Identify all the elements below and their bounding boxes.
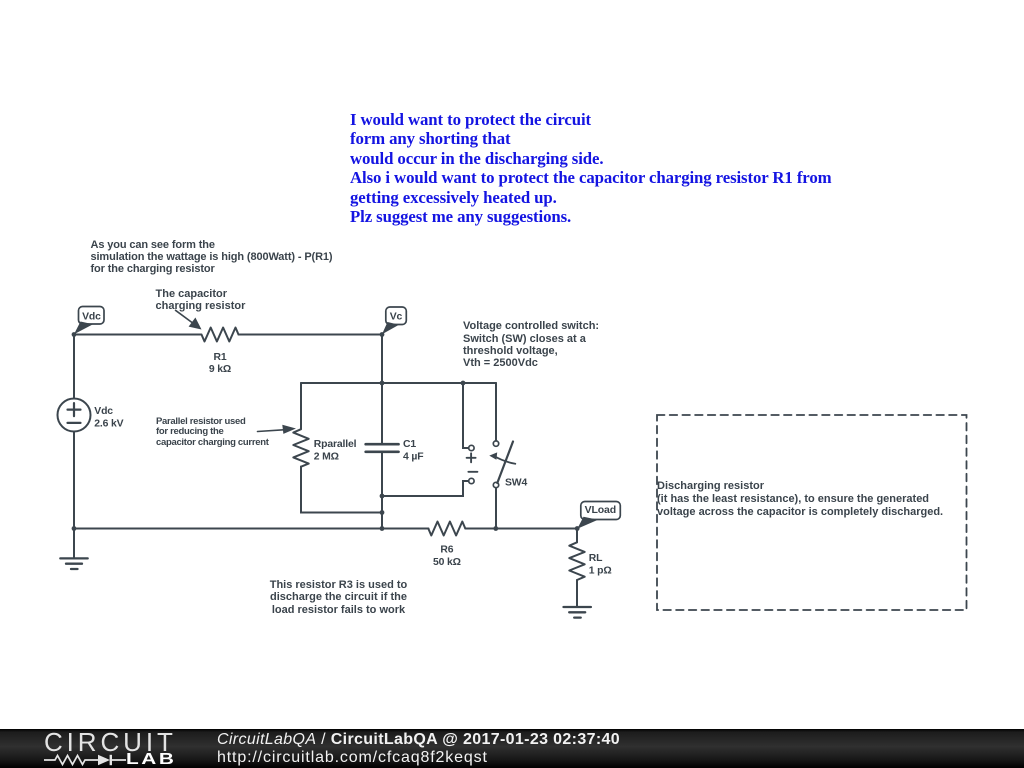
footer url line xyxy=(217,750,488,766)
wire Rparallel top stem xyxy=(300,383,302,429)
CircuitLab logo wordmark xyxy=(44,729,177,755)
wire RL top stem xyxy=(576,529,578,543)
wire bottom rail left xyxy=(74,528,429,530)
svg-text:Vdc: Vdc xyxy=(82,311,101,322)
node ground-rail left dot xyxy=(72,526,77,531)
resistor R6 xyxy=(428,522,465,536)
capacitor C1 xyxy=(366,444,399,452)
wire R1 to Vc node xyxy=(239,334,383,336)
wire Vdc node to R1 xyxy=(74,334,201,336)
svg-text:50 kΩ: 50 kΩ xyxy=(433,557,461,568)
wire Vc node down to C1 top xyxy=(381,335,383,445)
resistor Rparallel xyxy=(293,429,308,467)
svg-text:2 MΩ: 2 MΩ xyxy=(314,451,339,462)
svg-text:Vdc: Vdc xyxy=(94,406,113,417)
svg-text:RL: RL xyxy=(589,553,603,564)
annotation: the capacitor charging resistor xyxy=(156,288,246,313)
footer credit line xyxy=(217,732,620,748)
svg-text:C1: C1 xyxy=(403,439,416,450)
svg-text:SW4: SW4 xyxy=(505,477,527,488)
node Vdc junction dot xyxy=(72,332,77,337)
svg-text:1 pΩ: 1 pΩ xyxy=(589,566,612,577)
svg-text:Vc: Vc xyxy=(390,312,403,323)
node bottom-rail C1 dot xyxy=(380,526,385,531)
wire switch bottom to rail xyxy=(495,488,497,529)
voltage source V1 xyxy=(58,399,91,432)
svg-text:4 µF: 4 µF xyxy=(403,451,423,462)
wire Vdc node down to source xyxy=(73,335,75,399)
node C1-switch dot xyxy=(380,494,385,499)
annotation: parallel resistor note xyxy=(156,417,269,449)
node label VLoad xyxy=(577,502,620,529)
annotation: discharge resistor note xyxy=(268,579,409,616)
CircuitLab logo LAB xyxy=(126,752,177,768)
node top-rail switch dot xyxy=(461,381,466,386)
question text block xyxy=(350,110,832,228)
wire left ground stem xyxy=(73,529,75,559)
switch SW4 xyxy=(467,441,516,488)
footer bar xyxy=(0,729,1024,768)
node label Vc xyxy=(382,307,406,334)
wire switch control top xyxy=(463,383,469,448)
arrow to Rparallel xyxy=(258,425,297,434)
ground right xyxy=(564,607,591,618)
node switch-R6 dot xyxy=(493,526,498,531)
wire Rparallel bottom stem xyxy=(301,467,382,513)
svg-text:2.6 kV: 2.6 kV xyxy=(94,419,123,430)
wire source bottom to ground rail xyxy=(73,432,75,529)
wire RL bottom to ground xyxy=(576,580,578,607)
wire top rail of parallel section xyxy=(301,382,496,384)
annotation: voltage controlled switch note xyxy=(463,320,599,369)
svg-text:R1: R1 xyxy=(214,352,227,363)
node Rparallel bottom dot xyxy=(380,510,385,515)
svg-text:Rparallel: Rparallel xyxy=(314,439,357,450)
svg-text:VLoad: VLoad xyxy=(585,504,616,516)
annotation: simulation wattage note xyxy=(91,239,333,276)
node VLoad dot xyxy=(575,526,580,531)
svg-text:R6: R6 xyxy=(440,545,453,556)
svg-text:9 kΩ: 9 kΩ xyxy=(209,364,231,375)
CircuitLab logo circuit glyph xyxy=(44,753,128,768)
wire C1 bottom to bottom rail xyxy=(381,452,383,529)
resistor R1 xyxy=(202,328,239,342)
node label Vdc xyxy=(74,307,104,335)
wire bottom rail right of R6 xyxy=(465,528,577,530)
arrow to R1 xyxy=(176,310,202,329)
node Vc junction dot xyxy=(380,332,385,337)
wire switch right top xyxy=(495,383,497,441)
resistor RL xyxy=(569,542,584,580)
dashed annotation box xyxy=(657,415,967,610)
wire switch control return xyxy=(382,481,469,496)
annotation: discharging resistor dashed-box note xyxy=(657,480,943,519)
node top-rail C1 dot xyxy=(380,381,385,386)
ground left xyxy=(60,558,87,569)
